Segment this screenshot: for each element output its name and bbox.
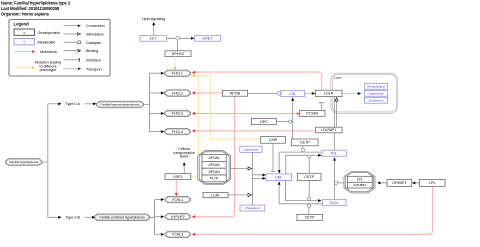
edge Type II.B to Familial combined hyperlipidemia	[85, 216, 92, 218]
capsule FCHL1	[165, 197, 191, 203]
inhibition PCSK9 to LDLR	[320, 103, 322, 110]
gene CETP 3	[297, 214, 323, 220]
svg-text:Conversion: Conversion	[86, 24, 105, 28]
svg-text:CETP: CETP	[305, 216, 315, 220]
transport LDLR to liver	[342, 93, 358, 95]
svg-text:PLTP: PLTP	[210, 177, 219, 181]
gene LCAT	[203, 192, 228, 197]
gene LPL in complex	[347, 176, 372, 182]
capsule Familial hyperlipidemia	[42, 104, 48, 218]
node EET	[140, 35, 166, 41]
svg-text:APOB: APOB	[230, 92, 241, 96]
node HDL	[266, 174, 292, 181]
svg-text:Mutations: Mutations	[40, 49, 57, 54]
svg-text:Metabolite: Metabolite	[38, 39, 56, 44]
gene GPIHBP1 in complex	[347, 182, 372, 188]
svg-text:USF1: USF1	[173, 175, 182, 179]
complex APOA octagon	[198, 151, 231, 185]
svg-text:PCSK9: PCSK9	[306, 112, 318, 116]
svg-text:Familial hypercholesterolemia: Familial hypercholesterolemia	[100, 103, 140, 107]
legend mutation-different-phenotype arrow	[15, 67, 31, 69]
svg-text:Name: Familial hyperlipidemia: Name: Familial hyperlipidemia type 2	[1, 1, 71, 6]
legend box	[9, 20, 110, 77]
svg-text:Familial hyperlipidemia: Familial hyperlipidemia	[9, 160, 39, 164]
legend conversion	[64, 25, 78, 27]
svg-text:x: x	[23, 41, 25, 45]
binding LDLRAP1 to LDLR	[336, 101, 338, 127]
edge USF1 to label	[183, 166, 185, 174]
svg-text:Gene/protein: Gene/protein	[38, 30, 61, 35]
svg-text:APOA4: APOA4	[208, 170, 219, 174]
svg-text:EPHX2: EPHX2	[172, 52, 184, 56]
svg-text:IDL: IDL	[331, 152, 337, 156]
svg-text:HDL: HDL	[275, 176, 282, 180]
node Cholesterol	[240, 205, 265, 211]
gene USF1	[165, 174, 191, 180]
catalysis CETP3 to VLDL-HDL	[308, 207, 310, 214]
svg-text:EET: EET	[150, 37, 158, 41]
svg-text:FHCL2: FHCL2	[172, 91, 183, 95]
edge EET to DHET conversion	[166, 37, 191, 39]
edge trunk to Type II.B	[48, 216, 58, 218]
svg-text:CETP: CETP	[300, 141, 310, 145]
node Cholesterol liver	[364, 97, 387, 103]
capsule FHCL3	[165, 110, 191, 116]
capsule HYPLIP2	[165, 214, 191, 220]
capsule FCHL3	[165, 231, 191, 237]
gene APOB	[222, 90, 247, 96]
svg-text:Transport: Transport	[86, 67, 102, 71]
svg-text:VLDL: VLDL	[330, 201, 339, 205]
node Lipoprotein	[240, 146, 262, 152]
svg-text:Type II.A: Type II.A	[65, 102, 80, 106]
edge to HDL a	[253, 174, 263, 176]
node Phospholipid	[364, 83, 387, 89]
capsule Familial hypercholesterolemia	[97, 101, 144, 108]
edge EET to Lipid signaling	[153, 25, 155, 35]
bracket type IIA	[144, 73, 150, 131]
gene GPIHBP1	[387, 179, 412, 186]
complex LPL octagon	[344, 172, 375, 194]
gene CETP 2	[297, 173, 321, 180]
svg-text:Triglyceride: Triglyceride	[368, 91, 384, 95]
edge VLDL to HDL	[279, 185, 322, 204]
node LDL	[281, 90, 305, 96]
transport LDL to LDLR	[305, 92, 312, 94]
svg-text:DHET: DHET	[202, 37, 213, 41]
svg-text:factor: factor	[180, 154, 190, 158]
capsule FHCL4	[165, 129, 191, 135]
capsule FHCL1	[165, 70, 191, 76]
edge HDL to VLDL	[286, 181, 319, 201]
svg-text:LDL: LDL	[289, 92, 296, 96]
svg-text:Last Modified: 20191130090258: Last Modified: 20191130090258	[1, 6, 60, 11]
yellow edge EPHX2 to FHCL1	[174, 57, 176, 68]
edge Type II.A to Familial hypercholesterolemia	[85, 103, 93, 105]
gene LDLRAP1	[316, 127, 343, 133]
inhibition CMR to HDL	[272, 143, 274, 171]
svg-text:APOA2: APOA2	[208, 163, 219, 167]
svg-text:LPL: LPL	[429, 181, 436, 185]
svg-text:FHCL4: FHCL4	[172, 130, 183, 134]
yellow edge CMR to FHCL1	[196, 76, 261, 139]
svg-text:Binding: Binding	[86, 49, 98, 53]
svg-text:GPIHBP1: GPIHBP1	[392, 181, 406, 185]
svg-text:Liver: Liver	[334, 76, 342, 80]
gene LPL	[419, 179, 445, 186]
capsule Familial combined hyperlipidemia	[95, 214, 150, 221]
red edge APOB to FHCL2	[196, 92, 223, 94]
liver compartment	[331, 73, 398, 113]
svg-text:HYPLIP2: HYPLIP2	[171, 215, 185, 219]
gene APOA4	[202, 168, 226, 175]
svg-text:Cholesterol: Cholesterol	[245, 206, 261, 210]
node DHET	[195, 35, 221, 41]
edge LDLR to IDL	[333, 97, 335, 151]
edge LPL to GPIHBP1	[415, 182, 419, 184]
edge to HDL b	[253, 177, 263, 179]
catalysis CETP1 to IDL-HDL	[302, 146, 304, 148]
svg-text:FHCL3: FHCL3	[172, 112, 183, 116]
edge IDL to HDL	[279, 152, 322, 171]
svg-text:CETP: CETP	[304, 175, 314, 179]
gene PCSK9	[300, 110, 325, 116]
svg-text:LIPC: LIPC	[260, 120, 269, 124]
svg-text:FCHL1: FCHL1	[172, 198, 183, 202]
edge HDL to IDL	[286, 155, 319, 174]
edge Lipoprotein to Cholesterol	[252, 152, 254, 205]
svg-text:Cholesterol: Cholesterol	[368, 98, 384, 102]
gene APOA2	[202, 161, 226, 168]
edge CETP1 to LDL	[292, 101, 294, 139]
red edge APOB to HYPLIP2	[196, 96, 235, 217]
svg-text:Phospholipid: Phospholipid	[367, 84, 385, 88]
svg-text:Lipoprotein: Lipoprotein	[243, 147, 258, 151]
red edge LDLRAP1 to FHCL4	[196, 130, 316, 132]
stimulation LCAT to cholesterol path	[228, 194, 248, 196]
catalysis CETP2 to HDL-VLDL	[308, 180, 310, 197]
svg-text:Type II.B: Type II.B	[65, 216, 80, 220]
edge GPIHBP1 to complex	[381, 182, 387, 184]
svg-text:Catalysis: Catalysis	[86, 41, 101, 45]
catalysis LPL complex to VLDL-IDL	[338, 182, 344, 184]
legend transport	[64, 68, 78, 70]
legend gene/protein	[14, 29, 35, 35]
bracket type IIB	[150, 200, 155, 235]
legend mutations arrow	[15, 51, 31, 53]
svg-text:FHCL1: FHCL1	[172, 71, 183, 75]
gene LIPC	[251, 119, 276, 125]
legend catalysis	[64, 41, 78, 43]
legend inhibition	[64, 59, 80, 61]
legend binding	[64, 50, 80, 52]
svg-text:phenotype: phenotype	[40, 68, 57, 72]
svg-text:Familial combined hyperlipidem: Familial combined hyperlipidemia	[99, 215, 144, 219]
node Triglyceride	[364, 90, 387, 96]
red edge USF1 to FCHL1	[175, 180, 177, 193]
legend metabolite	[14, 39, 35, 45]
svg-text:Lipid signaling: Lipid signaling	[142, 17, 165, 21]
svg-text:LPL: LPL	[357, 178, 363, 182]
edge trunk to Type II.A	[48, 103, 58, 105]
svg-text:CMR: CMR	[269, 138, 278, 142]
node VLDL	[322, 199, 346, 205]
svg-text:GPIHBP1: GPIHBP1	[353, 183, 366, 187]
catalysis anchor EPHX2	[177, 40, 179, 51]
svg-text:LCAT: LCAT	[211, 193, 221, 197]
catalysis APOB to LDL	[248, 92, 277, 94]
svg-text:Organism: Homo sapiens: Organism: Homo sapiens	[1, 12, 50, 17]
svg-text:FCHL3: FCHL3	[172, 233, 183, 237]
catalysis CETP2 to HDL-IDL	[308, 158, 310, 173]
svg-text:x: x	[23, 31, 25, 35]
svg-text:APOA1: APOA1	[208, 156, 219, 160]
legend stimulation	[64, 33, 78, 35]
svg-text:Inhibition: Inhibition	[86, 58, 101, 62]
stimulation complex to lipoprotein path	[231, 168, 248, 170]
red edge PCSK9 to FHCL3	[196, 113, 300, 115]
gene APOA1	[202, 155, 226, 162]
red edge LDLR to FHCL1	[196, 72, 322, 90]
gene EPHX2	[165, 51, 191, 57]
catalysis LIPC	[276, 121, 288, 123]
capsule FHCL2	[165, 90, 191, 96]
red edge LPL to FCHL3	[196, 187, 433, 235]
svg-text:LDLR: LDLR	[324, 92, 334, 96]
gene LDLR	[316, 90, 343, 96]
node IDL	[322, 150, 346, 156]
edge VLDL to IDL	[334, 161, 336, 200]
svg-text:LDLRAP1: LDLRAP1	[321, 128, 336, 132]
svg-text:Legend: Legend	[14, 22, 30, 27]
svg-text:Stimulation: Stimulation	[86, 33, 104, 37]
gene CMR	[261, 136, 286, 143]
gene CETP 1	[292, 139, 319, 146]
yellow edge USF1 to FHCL1	[191, 76, 199, 176]
gene PLTP	[202, 175, 226, 182]
